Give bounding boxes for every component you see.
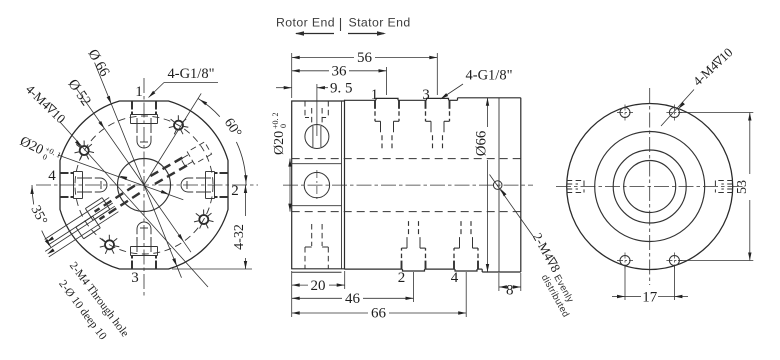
text phi20 +0.1/0 left view: [17, 133, 63, 167]
right view outer circle: [567, 104, 733, 270]
left view horizontal center line: [36, 184, 258, 186]
middle view rotor outline: [292, 101, 345, 269]
right view bolt holes 4-M4: [620, 108, 630, 118]
left view M4 tapped hole at 300deg: [174, 121, 183, 130]
svg-text:Rotor End: Rotor End: [276, 16, 335, 30]
left view hidden passage to upper-right (thick dashes): [155, 163, 191, 184]
right view circle 3: [613, 150, 686, 223]
rotor top radial hole (hidden): [304, 101, 306, 118]
dimension 4-32 (left view): [172, 268, 252, 270]
left view port 2 (right G1/8): [220, 172, 229, 174]
left view through hole channel B: [45, 206, 115, 251]
left view hidden counterbore upper-right (dashed stepped rect): [187, 142, 211, 164]
M4 side hole circle middle view: [493, 181, 502, 190]
left view center bore phi20: [118, 159, 171, 212]
svg-text:4-G1/8": 4-G1/8": [168, 66, 215, 82]
svg-text:20: 20: [311, 278, 326, 294]
dimension 60deg: radial line: [144, 93, 201, 185]
svg-text:4: 4: [48, 168, 56, 184]
leader 4-M4 depth10 right view: [661, 90, 694, 127]
leader 4-M4 depth10 (left view): [60, 122, 208, 287]
svg-text:56: 56: [357, 50, 373, 66]
dim phi20 +0.2/0 middle view: [289, 159, 291, 212]
svg-text:1: 1: [135, 84, 143, 100]
svg-text:66: 66: [371, 306, 387, 322]
left view passage lower-left thick dashes: [95, 186, 135, 212]
svg-text:2: 2: [398, 270, 406, 286]
middle view center line: [283, 184, 533, 186]
dim 53 right view: [678, 112, 753, 114]
dim 17 right view: [624, 266, 626, 300]
svg-text:Ø20: Ø20: [272, 131, 287, 155]
dim 9.5 middle view: [316, 84, 318, 136]
stator port 3 section: [425, 100, 427, 109]
leader phi20 tolerance (left view): [58, 155, 183, 200]
dim 46 middle view: [413, 272, 415, 302]
left view bolt circle phi52 dashed: [75, 116, 213, 254]
stator port 1 section: [374, 100, 376, 109]
left view M4 tapped hole at 210deg: [80, 146, 89, 155]
left view port 4 (left G1/8): [60, 196, 69, 198]
right view side M4 slot right (hidden): [715, 180, 732, 182]
stator flange inner edge line: [498, 98, 500, 272]
svg-text:2: 2: [231, 183, 239, 199]
svg-text:17: 17: [642, 290, 658, 306]
left view outline: flanged circle with four flats: [60, 101, 228, 269]
svg-text:1: 1: [371, 87, 379, 103]
left view M4 tapped hole at 30deg: [199, 215, 208, 224]
svg-text:4-32: 4-32: [232, 224, 247, 250]
dimension arc 60deg: [198, 99, 220, 117]
svg-text:4-G1/8": 4-G1/8": [466, 68, 513, 84]
svg-text:Ø66: Ø66: [474, 131, 490, 156]
left view through hole channel A (M4 with phi10 counterbore): [45, 198, 110, 240]
svg-text:46: 46: [345, 291, 361, 307]
svg-text:3: 3: [422, 87, 430, 103]
dim 36 middle view: [386, 67, 388, 95]
leader 2-M4 depth8 evenly distributed: [490, 175, 534, 237]
left view M4 tapped hole at 120deg: [105, 240, 114, 249]
left view port 1 (top G1/8): [131, 101, 133, 110]
right view bore circle: [624, 161, 676, 213]
dim 8 middle view: [498, 273, 500, 291]
dim 20 middle view: [291, 271, 293, 317]
dim phi66 middle view: [487, 98, 489, 127]
dimension arc 35deg: [42, 231, 51, 248]
right view side M4 slot left (hidden): [567, 180, 584, 182]
stator port 2 section: [401, 261, 403, 270]
right view circle 2: [595, 132, 705, 242]
text 4-M4 depth 10 left view: [23, 81, 69, 126]
svg-text:Stator End: Stator End: [349, 16, 411, 30]
rotor bottom radial hole (hidden): [311, 224, 313, 246]
rotor top hole circle: [305, 125, 329, 149]
svg-text:3: 3: [131, 270, 139, 286]
rotor bottom cap line: [292, 271, 342, 273]
middle view hidden bore lines phi20: [292, 158, 521, 160]
svg-text:4: 4: [451, 270, 459, 286]
svg-text:36: 36: [332, 63, 348, 79]
svg-text:53: 53: [735, 180, 750, 194]
diameter leader phi66 (left view): [95, 63, 182, 278]
rotor end arrow: [296, 33, 334, 35]
right view center lines: [649, 88, 651, 285]
svg-text:|: |: [339, 16, 343, 31]
rotor-stator interface lines: [341, 101, 343, 269]
left view vertical center line: [143, 78, 145, 297]
left view port 3 (bottom G1/8): [155, 261, 157, 270]
dim 66 middle view: [465, 272, 467, 317]
svg-text:9. 5: 9. 5: [330, 81, 353, 97]
stator port 4 section: [453, 261, 455, 270]
rotor middle circle: [304, 172, 329, 197]
leader arrows for through-hole labels: [46, 236, 54, 242]
middle view stator outline: [345, 99, 377, 101]
dim 56 middle view: [291, 53, 293, 98]
diameter leader phi52 (left view): [76, 88, 191, 252]
stator end arrow: [348, 33, 384, 35]
svg-text:8: 8: [506, 283, 514, 299]
rotor inner step lines: [292, 163, 342, 165]
